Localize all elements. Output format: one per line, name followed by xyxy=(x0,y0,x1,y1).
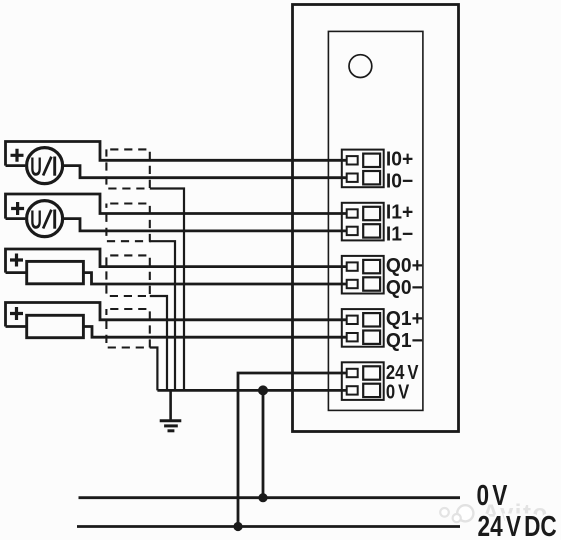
svg-text:0 V: 0 V xyxy=(386,380,410,403)
svg-text:U: U xyxy=(30,205,42,235)
svg-text:Q0−: Q0− xyxy=(386,276,423,299)
svg-text:I0+: I0+ xyxy=(386,148,413,171)
svg-text:I1+: I1+ xyxy=(386,201,413,224)
svg-text:I1−: I1− xyxy=(386,223,413,246)
svg-text:U: U xyxy=(30,152,42,182)
svg-text:I0−: I0− xyxy=(386,170,413,193)
svg-text:0 V: 0 V xyxy=(477,478,508,511)
svg-text:Q1+: Q1+ xyxy=(386,308,423,331)
svg-text:Q1−: Q1− xyxy=(386,330,423,353)
svg-text:Q0+: Q0+ xyxy=(386,254,423,277)
svg-text:24 V DC: 24 V DC xyxy=(478,509,557,540)
